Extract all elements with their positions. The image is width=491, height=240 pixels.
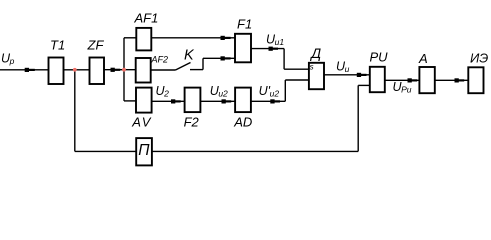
svg-text:AD: AD [233,114,252,129]
wire feedback right riser [357,85,359,151]
arrowhead into T1 [25,68,35,72]
svg-text:ZF: ZF [87,38,105,53]
svg-text:Uи: Uи [336,59,350,74]
wire switch up [202,58,204,69]
arrowhead into A [408,78,418,82]
arrowhead on U'и2 wire [270,99,280,103]
svg-text:Uи2: Uи2 [210,84,228,99]
svg-text:F2: F2 [184,114,200,129]
arrowhead after ZF [111,68,121,72]
wire feedback vertical left [74,70,76,152]
switch K right lead [190,69,203,71]
arrowhead on Uи1 wire [269,47,279,51]
block ZF [90,58,105,85]
wire F2 to AD [200,100,235,102]
block AV [136,88,152,113]
svg-text:Uр: Uр [1,52,15,67]
wire to AF1 [124,37,136,39]
wire feedback П to right riser [152,150,358,152]
arrowhead into F1 lower [221,56,231,60]
node Uи label [336,59,350,74]
node junction J2 (red dot) [122,68,126,72]
arrowhead into PU [357,73,367,77]
svg-text:U2: U2 [156,84,170,99]
svg-text:AF1: AF1 [134,11,159,26]
wire F1 output [251,48,284,50]
wire Uи1 corner down [283,49,285,70]
svg-text:Д: Д [309,45,321,61]
node U2 label [156,84,170,99]
arrowhead into F2 [171,99,181,103]
block A [419,67,434,93]
block PU [370,67,385,92]
wire Д to PU [324,74,370,76]
wire feedback bottom left to П [75,150,136,152]
block П [136,138,152,165]
svg-text:s: s [310,62,314,71]
block F2 [185,88,201,113]
wire input to T1 [0,69,49,71]
wire AF1 to F1 [151,37,235,39]
node UPи label [393,80,412,95]
wire AD output [251,100,285,102]
wire A to ИЭ [435,79,469,81]
block ИЭ [468,67,483,93]
wire switch to F1 lower [203,57,235,59]
wire into Д lower input [285,79,309,81]
svg-text:AV: AV [131,115,152,130]
block F1 [235,34,251,63]
arrowhead into F1 upper [221,36,231,40]
wire AF2 to switch left contact [151,69,176,71]
svg-text:F1: F1 [237,16,252,31]
node Uи2 label [210,84,228,99]
wire into PU lower input [358,84,370,86]
switch K blade (open) [176,63,191,71]
node U'и2 label [259,84,280,99]
wire to AV [124,100,136,102]
block T1 [49,58,64,85]
wire AV to F2 [152,100,185,102]
wire PU to A [385,79,420,81]
wire T1 to ZF [64,69,90,71]
node Uи1 label [266,33,284,48]
block AF2 [136,58,151,83]
block AF1 [136,28,151,51]
svg-text:ИЭ: ИЭ [470,51,488,66]
svg-text:A: A [418,51,428,66]
node Up input label [1,52,15,67]
node junction J1 (red dot) [73,68,77,72]
svg-text:K: K [184,48,195,64]
svg-text:Uи1: Uи1 [266,33,284,48]
arrowhead into ИЭ [455,78,465,82]
svg-text:П: П [138,142,150,159]
svg-text:U'и2: U'и2 [259,84,280,99]
block AD [235,88,251,113]
block Д [309,63,324,89]
wire splitter vertical [123,38,125,101]
svg-text:T1: T1 [50,38,65,53]
wire ZF to splitter junction [104,69,136,71]
wire into Д upper input [284,68,309,70]
svg-text:PU: PU [370,50,389,65]
arrowhead into AD [222,99,232,103]
svg-text:AF2: AF2 [151,55,169,65]
wire U'и2 corner up [284,80,286,101]
